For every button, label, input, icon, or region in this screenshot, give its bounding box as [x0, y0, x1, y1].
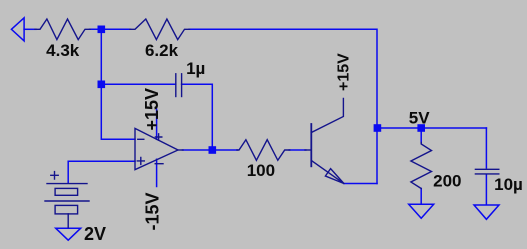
svg-text:4.3k: 4.3k [46, 41, 80, 60]
svg-text:+15V: +15V [142, 88, 162, 131]
svg-text:-15V: -15V [143, 192, 163, 230]
svg-text:200: 200 [433, 172, 461, 191]
svg-text:+15V: +15V [336, 53, 353, 91]
svg-text:100: 100 [247, 161, 275, 180]
svg-text:1µ: 1µ [186, 59, 205, 78]
svg-text:2V: 2V [84, 224, 106, 244]
svg-text:10µ: 10µ [494, 175, 523, 194]
svg-text:6.2k: 6.2k [145, 41, 179, 60]
svg-text:5V: 5V [409, 108, 430, 127]
